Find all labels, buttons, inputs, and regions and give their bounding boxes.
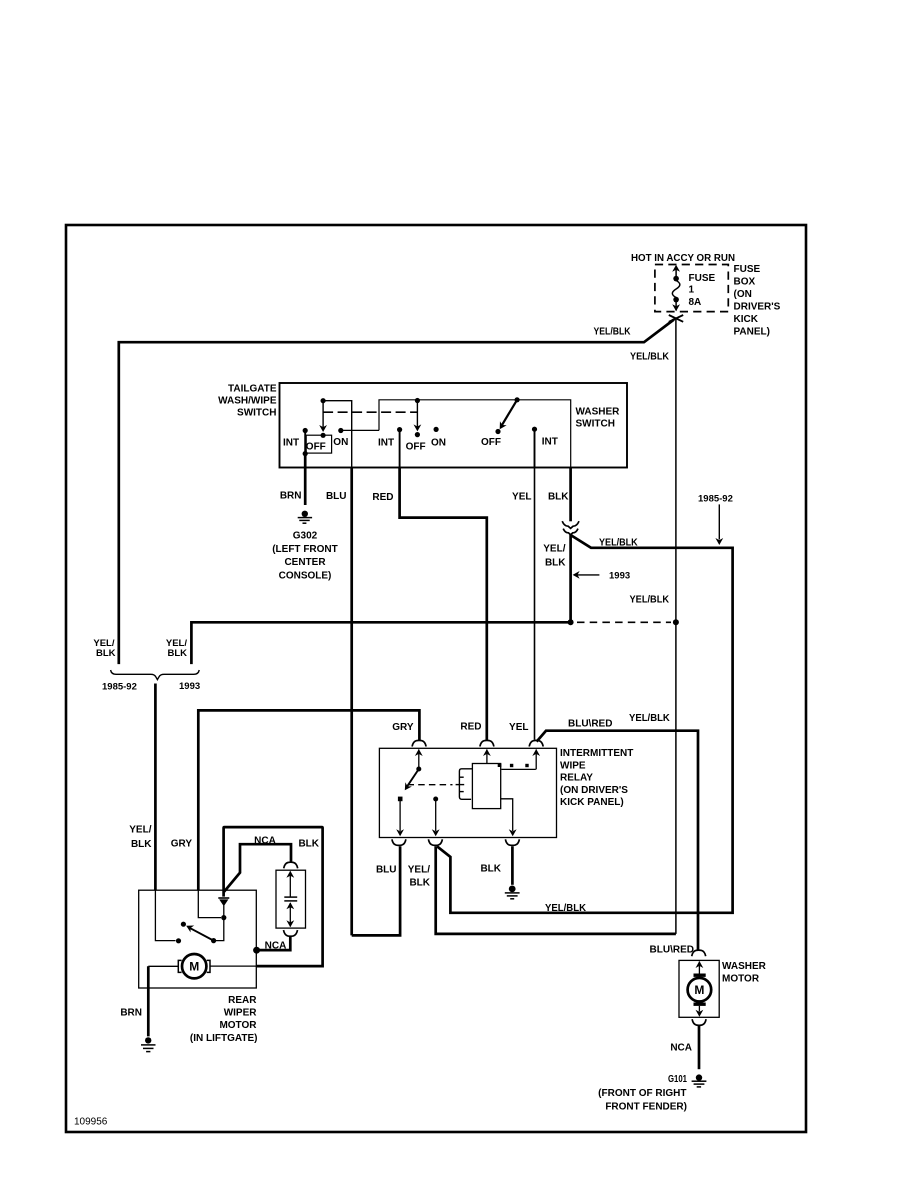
node S1 pivot xyxy=(321,398,326,403)
svg-text:BLK: BLK xyxy=(545,558,566,569)
svg-text:YEL/BLK: YEL/BLK xyxy=(630,352,670,363)
node park switch pole xyxy=(181,922,186,927)
svg-text:TAILGATE: TAILGATE xyxy=(228,384,277,395)
switch S3 wiper arm (washer) xyxy=(502,400,518,426)
dashed link between nodes xyxy=(577,621,671,623)
svg-text:KICK PANEL): KICK PANEL) xyxy=(560,797,624,808)
wire 1993 feed (left) xyxy=(191,622,570,664)
motor internal YEL/BLK lead xyxy=(155,890,175,940)
svg-text:WASHER: WASHER xyxy=(576,407,621,418)
svg-text:FRONT FENDER): FRONT FENDER) xyxy=(605,1102,687,1113)
node S2 OFF xyxy=(415,432,420,437)
relay internal switch blade xyxy=(407,769,419,787)
svg-text:1985-92: 1985-92 xyxy=(102,681,137,692)
node park switch contact A xyxy=(176,938,181,943)
connector above breaker xyxy=(284,862,298,868)
svg-text:109956: 109956 xyxy=(74,1117,108,1128)
svg-text:PANEL): PANEL) xyxy=(734,327,770,338)
wire BLK xyxy=(569,468,572,522)
motor internal GRY lead xyxy=(198,890,221,917)
svg-text:BLU: BLU xyxy=(326,491,347,502)
svg-text:YEL/: YEL/ xyxy=(408,865,430,876)
connector at relay GRY input xyxy=(412,740,426,746)
svg-text:BLK: BLK xyxy=(409,878,430,889)
svg-text:RELAY: RELAY xyxy=(560,773,593,784)
ground G302 symbol xyxy=(298,511,312,524)
svg-text:(LEFT FRONT: (LEFT FRONT xyxy=(272,544,338,555)
node S1 INT xyxy=(303,428,308,433)
svg-text:YEL: YEL xyxy=(509,722,528,733)
svg-text:WASH/WIPE: WASH/WIPE xyxy=(218,396,277,407)
svg-text:8A: 8A xyxy=(689,297,702,308)
relay coil left bracket xyxy=(459,769,472,800)
svg-text:YEL/BLK: YEL/BLK xyxy=(545,903,587,914)
svg-text:REAR: REAR xyxy=(228,995,257,1006)
OFF box xyxy=(306,435,331,453)
node diode junction xyxy=(221,915,226,920)
relay pin RED entry arrow xyxy=(486,750,488,764)
wire BLK relay to ground xyxy=(511,846,514,885)
svg-text:NCA: NCA xyxy=(254,836,276,847)
svg-text:BLK: BLK xyxy=(298,839,319,850)
svg-text:OFF: OFF xyxy=(406,442,426,453)
connector at relay RED input xyxy=(480,740,494,746)
wire BRN to ground xyxy=(147,966,150,1036)
svg-text:BLK: BLK xyxy=(480,864,501,875)
relay internal switch pivot xyxy=(416,767,421,772)
relay BLK output from coil xyxy=(501,799,513,831)
svg-text:BLK: BLK xyxy=(167,648,187,659)
svg-text:YEL/BLK: YEL/BLK xyxy=(594,327,632,338)
node NCA at motor box edge xyxy=(253,947,260,954)
svg-text:INTERMITTENT: INTERMITTENT xyxy=(560,748,633,759)
breaker box xyxy=(276,870,306,928)
svg-text:OFF: OFF xyxy=(306,441,326,452)
wire YEL/BLK to rear wiper motor xyxy=(154,684,157,891)
motor leads xyxy=(148,965,178,967)
breaker internals xyxy=(284,872,297,927)
svg-text:BLU: BLU xyxy=(376,865,397,876)
wire BRN xyxy=(304,454,307,505)
svg-text:G302: G302 xyxy=(293,531,318,542)
washer switch inner partition xyxy=(379,400,571,468)
intermittent wipe relay box xyxy=(379,748,556,837)
svg-text:HOT IN ACCY OR RUN: HOT IN ACCY OR RUN xyxy=(631,253,735,264)
svg-text:CENTER: CENTER xyxy=(284,557,326,568)
svg-text:DRIVER'S: DRIVER'S xyxy=(734,302,781,313)
svg-text:1993: 1993 xyxy=(179,681,200,692)
node park switch contact B xyxy=(211,938,216,943)
svg-text:RED: RED xyxy=(372,492,393,503)
svg-text:GRY: GRY xyxy=(392,722,414,733)
svg-text:SWITCH: SWITCH xyxy=(576,419,615,430)
park switch blade xyxy=(190,928,214,941)
svg-text:YEL/BLK: YEL/BLK xyxy=(630,595,670,606)
node S2 ON xyxy=(434,427,439,432)
relay coil box xyxy=(472,764,500,809)
svg-text:BLU\RED: BLU\RED xyxy=(650,945,694,956)
wire YEL/BLK + BLU\RED feed to relay YEL input xyxy=(537,731,698,951)
svg-text:INT: INT xyxy=(283,438,299,449)
ground (relay BLK) xyxy=(505,886,520,899)
relay pin GRY entry arrow xyxy=(418,750,420,770)
connector above washer motor xyxy=(692,950,706,956)
coil corner square xyxy=(498,764,502,767)
linkage dashed S1-S2 xyxy=(323,411,417,413)
svg-text:1: 1 xyxy=(689,285,695,296)
svg-text:MOTOR: MOTOR xyxy=(722,973,760,984)
relay internal contact square xyxy=(398,797,403,802)
svg-text:(ON DRIVER'S: (ON DRIVER'S xyxy=(560,785,628,796)
svg-text:FUSE: FUSE xyxy=(734,264,761,275)
node S1 ON xyxy=(338,428,343,433)
svg-text:CONSOLE): CONSOLE) xyxy=(279,570,332,581)
svg-text:(ON: (ON xyxy=(734,289,752,300)
wire NCA from diode to breaker xyxy=(224,844,291,892)
connector X below fuse xyxy=(669,315,683,322)
svg-text:(IN LIFTGATE): (IN LIFTGATE) xyxy=(190,1033,258,1044)
relay pin YEL entry arrow xyxy=(535,750,537,770)
relay internal dashed linkage xyxy=(408,784,453,786)
svg-text:G101: G101 xyxy=(668,1074,687,1085)
wire RED xyxy=(399,430,401,468)
switch S2 wiper arm xyxy=(416,401,418,428)
node S1 OFF xyxy=(321,433,326,438)
svg-text:BLU\RED: BLU\RED xyxy=(568,719,612,730)
svg-text:BRN: BRN xyxy=(120,1008,142,1019)
node S1 INT lower xyxy=(303,451,308,456)
motor M (rear wiper) xyxy=(178,954,210,978)
svg-text:BRN: BRN xyxy=(280,491,302,502)
svg-text:INT: INT xyxy=(542,437,558,448)
relay dotted link YEL to coil xyxy=(510,764,513,767)
svg-text:BLK: BLK xyxy=(548,492,569,503)
svg-text:BLK: BLK xyxy=(131,839,152,850)
svg-text:(FRONT OF RIGHT: (FRONT OF RIGHT xyxy=(598,1088,686,1099)
switch S1 wiper arm xyxy=(322,401,324,428)
wire S1 ON to partition xyxy=(341,429,379,431)
svg-text:KICK: KICK xyxy=(734,314,759,325)
svg-text:WASHER: WASHER xyxy=(722,961,767,972)
connector below relay YEL/BLK xyxy=(428,839,442,845)
border frame xyxy=(66,225,806,1132)
diode D1 xyxy=(223,906,225,918)
svg-text:YEL/BLK: YEL/BLK xyxy=(629,713,671,724)
svg-text:INT: INT xyxy=(378,438,394,449)
connector below washer motor xyxy=(692,1019,706,1025)
svg-text:M: M xyxy=(694,983,704,997)
svg-text:NCA: NCA xyxy=(265,940,287,951)
svg-text:ON: ON xyxy=(431,438,446,449)
wire from fuse down (thin, long vertical) xyxy=(675,319,677,934)
wire BLU relay to motor loop xyxy=(352,846,400,935)
svg-text:YEL/BLK: YEL/BLK xyxy=(599,538,638,549)
svg-text:YEL: YEL xyxy=(512,492,531,503)
ground G101 xyxy=(692,1074,707,1087)
node S2 pivot xyxy=(415,398,420,403)
node YEL/BLK output start xyxy=(433,797,438,802)
node junction dot left xyxy=(568,619,574,625)
relay YEL/BLK output arrow xyxy=(435,799,437,831)
wire GRY from motor to relay xyxy=(198,710,419,890)
wire NCA breaker to motor xyxy=(257,937,291,950)
arrow 1993 applicability xyxy=(577,574,600,576)
svg-text:1985-92: 1985-92 xyxy=(698,494,733,505)
svg-text:GRY: GRY xyxy=(171,839,193,850)
svg-text:SWITCH: SWITCH xyxy=(237,408,276,419)
coil ticks xyxy=(460,776,464,778)
wire contact B to diode node xyxy=(214,918,224,941)
svg-text:YEL/: YEL/ xyxy=(543,544,565,555)
connector at relay YEL input xyxy=(529,740,543,746)
svg-text:WIPE: WIPE xyxy=(560,760,586,771)
brace years xyxy=(111,670,200,680)
wire NCA washer to ground xyxy=(698,1026,701,1069)
wire S1 INT down xyxy=(304,431,306,454)
svg-text:BLK: BLK xyxy=(96,648,116,659)
washer motor entry arrow xyxy=(698,962,700,976)
svg-text:MOTOR: MOTOR xyxy=(219,1020,257,1031)
link YEL input to coil xyxy=(501,768,536,770)
svg-text:WIPER: WIPER xyxy=(224,1008,258,1019)
svg-text:BOX: BOX xyxy=(734,277,756,288)
node S2 INT xyxy=(397,427,402,432)
tailgate wash/wipe switch box xyxy=(280,383,628,468)
wire BLU xyxy=(350,468,353,936)
wire BLK loop: diode junction around to motor terminal xyxy=(224,827,323,966)
svg-text:RED: RED xyxy=(460,722,481,733)
svg-text:FUSE: FUSE xyxy=(689,273,716,284)
rear wiper motor box xyxy=(139,890,257,988)
fuse F1 symbol xyxy=(672,267,680,311)
washer motor box xyxy=(679,960,719,1017)
inline connector pair on BLK wire xyxy=(562,521,579,535)
svg-text:ON: ON xyxy=(333,437,348,448)
ground (rear wiper BRN) xyxy=(141,1037,156,1051)
fuse box dashed outline xyxy=(655,265,728,312)
node junction dot right (on fuse wire) xyxy=(673,619,679,625)
svg-text:1993: 1993 xyxy=(609,571,630,582)
svg-text:OFF: OFF xyxy=(481,437,501,448)
node S3 OFF xyxy=(495,429,500,434)
node S3 pivot xyxy=(515,397,520,402)
washer motor exit arrow xyxy=(698,1006,700,1012)
motor M (washer) xyxy=(688,975,712,1004)
wire YEL/BLK loop: switch BLK to relay via right side xyxy=(569,534,572,621)
connector below relay BLU xyxy=(392,839,406,845)
wire YEL xyxy=(534,429,536,467)
relay BLU output line xyxy=(399,801,401,831)
node S3 INT xyxy=(532,427,537,432)
wire YEL/BLK from fuse to left side (1985-92) xyxy=(119,320,674,665)
svg-text:YEL/: YEL/ xyxy=(129,825,151,836)
svg-text:M: M xyxy=(189,960,199,974)
wire S1 pivot to BLU xyxy=(323,401,352,468)
connector below breaker xyxy=(284,930,298,936)
svg-text:NCA: NCA xyxy=(670,1043,692,1054)
wire YEL/BLK relay to fuse line xyxy=(436,846,676,934)
connector below relay BLK xyxy=(505,839,519,845)
